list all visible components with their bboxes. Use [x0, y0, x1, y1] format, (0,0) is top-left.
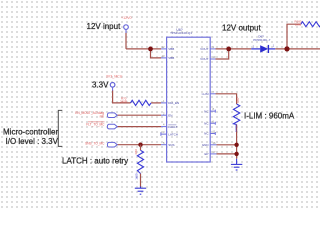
pin 3 LATCH stub with NC tick	[161, 132, 167, 136]
svg-text:+12V0: +12V0	[121, 16, 132, 20]
svg-text:SNS_TO_MC: SNS_TO_MC	[85, 141, 105, 145]
pin 1 DIA_EN stub	[161, 102, 167, 104]
wire R66 to ground	[140, 174, 142, 188]
diode D6 cathode lead	[268, 48, 275, 50]
pin 10 VOUT stub	[210, 58, 215, 60]
node junction GND	[234, 143, 238, 147]
svg-text:LATCH: LATCH	[168, 132, 178, 136]
svg-text:VBB: VBB	[168, 47, 174, 51]
wire I-LIM pin to R67	[216, 94, 237, 104]
pin 13 VBB stub	[161, 57, 167, 59]
pin 8 NC stub	[210, 110, 215, 113]
resistor R6 (top right)	[301, 22, 320, 27]
pin 11 NC stub	[210, 132, 215, 135]
svg-text:16: 16	[213, 141, 216, 145]
svg-text:mb: mb	[100, 115, 105, 119]
svg-text:976R: 976R	[234, 125, 238, 132]
diode D6 body	[260, 45, 268, 52]
ground right (IC GND/EP)	[231, 159, 242, 170]
svg-text:I/O level : 3.3V: I/O level : 3.3V	[6, 137, 59, 146]
svg-text:240R: 240R	[120, 100, 127, 104]
svg-text:SNS: SNS	[168, 143, 174, 147]
svg-text:R66: R66	[134, 149, 138, 155]
node junction VOUT	[226, 47, 231, 52]
diode D6 cathode bar	[267, 45, 269, 53]
svg-text:LATCH : auto retry: LATCH : auto retry	[62, 156, 128, 165]
wire 12V input vertical drop	[125, 33, 127, 49]
port SNS_TO_MC flag	[107, 142, 117, 147]
svg-text:GND: GND	[202, 143, 210, 147]
wire diode cathode to right edge	[275, 48, 320, 50]
resistor R66 (SNS)	[137, 150, 143, 173]
diode D6 anode lead	[251, 48, 260, 50]
wire SNS port to pin 5	[117, 144, 161, 146]
port 3.3V circle	[110, 83, 115, 88]
wire 12V input horizontal to VBB pin 12	[126, 48, 161, 50]
svg-text:PDS5100L-7: PDS5100L-7	[253, 38, 271, 42]
svg-text:VBB: VBB	[168, 56, 174, 60]
bracket grouping MCU ports	[58, 110, 62, 146]
svg-text:12V output: 12V output	[222, 24, 261, 33]
svg-text:DIA_EN: DIA_EN	[168, 101, 179, 105]
svg-text:3V3_MCU: 3V3_MCU	[106, 74, 123, 78]
pin EP stub	[210, 153, 216, 155]
resistor R7 (DIA_EN)	[131, 100, 152, 105]
wire EP pin to rail	[217, 153, 237, 155]
svg-text:12V input: 12V input	[87, 22, 122, 31]
pin 9 VOUT stub	[210, 48, 215, 50]
pin GND stub	[210, 144, 216, 146]
ground left (SNS divider)	[135, 187, 146, 195]
svg-text:TPS1HC100-Q1: TPS1HC100-Q1	[170, 31, 192, 35]
port 3.3V stem	[112, 87, 114, 91]
resistor R67 (I-LIM)	[233, 104, 239, 125]
wire R7 to DIA_EN pin	[151, 102, 161, 104]
svg-text:I-LIM : 960mA: I-LIM : 960mA	[244, 111, 295, 120]
wire VOUT pin 10 up-branch	[216, 49, 229, 59]
wire up to pull resistor R6	[287, 24, 301, 49]
svg-text:FAULT: FAULT	[168, 125, 177, 129]
svg-text:3.3V: 3.3V	[92, 81, 109, 90]
svg-text:I-LIM: I-LIM	[202, 92, 209, 96]
pin 5 SNS stub	[161, 144, 167, 146]
wire 3.3V drop to R7	[113, 90, 131, 103]
svg-text:NC: NC	[204, 121, 209, 125]
svg-text:1k00: 1k00	[134, 173, 138, 180]
node junction SNS	[138, 143, 142, 147]
wire VOUT pin 9 to diode anode	[216, 48, 252, 50]
wire EN port to pin 2	[117, 114, 161, 116]
node junction 12V output	[284, 46, 289, 51]
svg-text:EN: EN	[168, 113, 172, 117]
svg-text:R67: R67	[236, 97, 240, 103]
wire R67 to GND rail	[236, 125, 238, 159]
svg-text:NC: NC	[204, 132, 209, 136]
svg-text:Micro-controller: Micro-controller	[3, 127, 58, 136]
label port FLT_TO_MC overbar	[88, 121, 105, 123]
svg-text:VOUT: VOUT	[200, 57, 209, 61]
svg-text:1k65: 1k65	[295, 23, 302, 27]
port EN_MOUT flag	[107, 113, 117, 118]
pin 4 FAULT stub	[161, 126, 167, 128]
pin 2 EN stub	[161, 114, 167, 116]
wire branch to VBB pin 13	[151, 49, 162, 58]
port FLT_TO_MC flag	[107, 124, 117, 129]
wire SNS junction down to R66	[140, 145, 142, 151]
wire GND pin to rail	[217, 144, 237, 146]
svg-text:VOUT: VOUT	[200, 47, 209, 51]
svg-text:NC: NC	[204, 109, 209, 113]
svg-text:EP: EP	[204, 152, 208, 156]
port 12V input stem	[125, 29, 127, 33]
pin 6 NC stub	[210, 122, 215, 125]
svg-text:3: 3	[163, 130, 165, 134]
port 12V input circle	[124, 25, 129, 30]
wire FLT port to pin 4	[117, 126, 161, 128]
op IC U6 body TPS1HC100-Q1	[167, 37, 211, 162]
svg-text:1: 1	[273, 43, 275, 47]
pin 7 I-LIM stub	[210, 93, 215, 95]
svg-text:FLT_TO_MC: FLT_TO_MC	[86, 122, 105, 126]
svg-text:2: 2	[253, 44, 255, 48]
pin 12 VBB stub	[161, 48, 167, 50]
node junction VBB	[148, 47, 153, 52]
node junction EP	[234, 152, 238, 156]
